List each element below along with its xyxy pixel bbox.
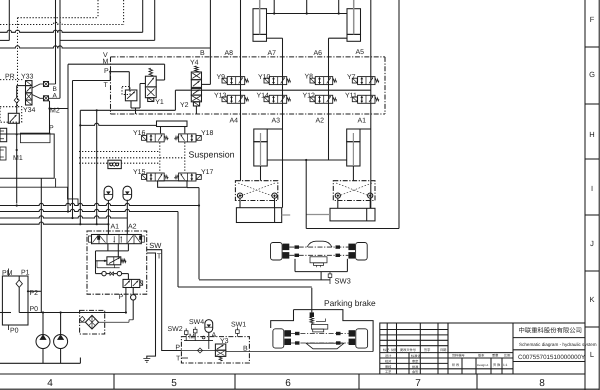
wire dotted horiz y17.7 xyxy=(18,17,99,19)
wire bundle line 3 xyxy=(0,216,127,218)
svg-text:P: P xyxy=(104,68,109,75)
svg-text:A6: A6 xyxy=(313,50,322,57)
solenoid valve Y8 xyxy=(310,77,337,85)
svg-text:审定: 审定 xyxy=(412,359,419,363)
ground symbol T xyxy=(143,359,150,363)
wire bundle line 2 xyxy=(0,209,178,211)
suspension valve block right xyxy=(333,181,375,201)
svg-text:T: T xyxy=(157,252,162,261)
svg-text:更改文件号: 更改文件号 xyxy=(400,348,416,352)
travel valve boundary xyxy=(87,231,147,294)
wire SW line xyxy=(147,250,182,351)
wire A2 feed drop xyxy=(126,218,128,235)
svg-text:A7: A7 xyxy=(267,50,276,57)
axle rear differential xyxy=(306,343,344,349)
svg-text:T: T xyxy=(176,356,181,363)
wire horiz y32.3 xyxy=(0,30,143,32)
wire drops from top edge xyxy=(273,0,275,14)
solenoid valve Y9 xyxy=(222,77,249,85)
svg-text:SW4: SW4 xyxy=(189,319,204,326)
svg-text:I: I xyxy=(591,184,593,193)
reducing valve (pilot supply) xyxy=(125,90,136,101)
svg-text:A: A xyxy=(212,332,217,339)
wire bundle line 4 xyxy=(0,222,108,224)
wire T line xyxy=(147,253,156,358)
cylinder right (outrigger) xyxy=(347,9,361,35)
axle rear wheel left xyxy=(273,329,284,348)
wire bundle line 1 xyxy=(0,203,199,205)
svg-text:Y18: Y18 xyxy=(201,130,214,137)
node P (brake) xyxy=(125,288,127,295)
check diamond (Y3) xyxy=(198,348,203,353)
wire vertical x60 (to A) xyxy=(59,0,61,98)
accumulator 3 xyxy=(205,320,213,333)
wire manifold drops xyxy=(160,127,162,134)
svg-text:审核: 审核 xyxy=(385,365,392,369)
svg-text:A: A xyxy=(53,93,58,100)
svg-text:Y4: Y4 xyxy=(190,60,199,67)
wire dotted vertical x98 xyxy=(97,0,99,18)
solenoid valve Y12 xyxy=(310,95,337,103)
axle front differential xyxy=(307,241,332,247)
svg-text:Y1: Y1 xyxy=(155,99,164,106)
svg-text:A4: A4 xyxy=(229,118,238,125)
Y3 block boundary xyxy=(181,337,249,363)
solenoid valve Y7 xyxy=(352,77,379,85)
svg-text:F: F xyxy=(590,15,595,24)
svg-text:P: P xyxy=(49,125,54,132)
wire vertical x142.7 xyxy=(142,0,144,32)
wire cylinder head line xyxy=(267,13,348,15)
svg-text:A1: A1 xyxy=(357,118,366,125)
wire front axle drain xyxy=(294,259,296,272)
svg-text:Y2: Y2 xyxy=(180,102,189,109)
wire manifold out right xyxy=(187,187,199,189)
parking brake enclosure xyxy=(294,310,374,352)
title block xyxy=(380,323,585,374)
svg-text:A3: A3 xyxy=(271,118,280,125)
svg-text:Design A: Design A xyxy=(477,363,488,367)
node P2 xyxy=(27,290,29,292)
switch SW3 xyxy=(328,274,332,278)
svg-text:Y10: Y10 xyxy=(258,74,271,81)
svg-text:A2: A2 xyxy=(128,223,137,230)
svg-text:A8: A8 xyxy=(224,50,233,57)
svg-text:J: J xyxy=(590,239,594,248)
wire brake P down xyxy=(125,295,127,313)
svg-text:校对: 校对 xyxy=(385,359,392,363)
drawing border right column xyxy=(584,0,586,390)
boundary staircase xyxy=(56,178,78,205)
parking brake actuator xyxy=(310,312,314,317)
svg-text:资料编号: 资料编号 xyxy=(452,354,465,358)
steering unit box xyxy=(0,134,54,178)
wire brake feed xyxy=(311,288,313,313)
wire steering internals xyxy=(40,178,42,312)
svg-text:SW2: SW2 xyxy=(168,326,183,333)
wire suspension connector xyxy=(267,159,347,161)
svg-text:P1: P1 xyxy=(21,270,30,277)
suspension cylinder left xyxy=(254,129,267,142)
svg-text:5: 5 xyxy=(171,378,177,389)
travel control valve xyxy=(92,235,142,244)
svg-text:SW1: SW1 xyxy=(231,322,246,329)
wire from x210 into Y4 xyxy=(209,0,211,84)
node O (brake) xyxy=(132,288,134,295)
shuttle box on pressure line xyxy=(108,160,121,168)
svg-text:P0: P0 xyxy=(10,328,19,335)
wire pump pressure line xyxy=(0,312,11,314)
switch SW2 xyxy=(184,331,188,335)
wire port line A5-A1 xyxy=(370,0,372,129)
valve Y2 xyxy=(191,88,201,95)
cylinder left (outrigger) xyxy=(253,9,267,35)
suspension top manifold xyxy=(157,121,188,127)
svg-text:B: B xyxy=(200,50,205,57)
check diamond xyxy=(14,98,19,103)
svg-text:H: H xyxy=(589,130,594,139)
wire Y3 internals xyxy=(184,340,213,342)
svg-text:C00755701510000000Y: C00755701510000000Y xyxy=(518,354,585,361)
pressure compensator xyxy=(96,250,129,252)
wire down line x96.7 xyxy=(96,110,98,224)
svg-text:Schematic diagram - hydraulic: Schematic diagram - hydraulic system xyxy=(519,342,597,347)
wire port line A6-A2 xyxy=(328,38,330,160)
svg-text:Y9: Y9 xyxy=(217,74,226,81)
switch SW4 xyxy=(193,329,197,333)
axle front wheel right xyxy=(356,243,368,261)
svg-text:Parking brake: Parking brake xyxy=(324,298,376,308)
wire dotted horiz y24.5 xyxy=(0,22,124,24)
reducing valve left xyxy=(8,113,19,123)
wire dash-dot V line xyxy=(111,56,386,58)
steering valve section xyxy=(20,133,50,143)
svg-text:M1: M1 xyxy=(13,155,23,162)
axle rear brake right xyxy=(349,330,356,336)
svg-text:日期: 日期 xyxy=(440,348,446,352)
filter box xyxy=(80,310,105,334)
svg-text:Y14: Y14 xyxy=(257,93,270,100)
wire supply corner to bundle xyxy=(174,90,176,110)
wire port line A8-A4 xyxy=(240,0,242,181)
wire Y2 bottom xyxy=(195,106,197,114)
pump 2 xyxy=(54,335,68,349)
brake pilot valve xyxy=(123,279,140,287)
wire vertical x9.3 xyxy=(8,0,10,40)
svg-text:中联重科股份有限公司: 中联重科股份有限公司 xyxy=(519,327,582,335)
wire valve feed stubs xyxy=(107,244,109,251)
wire B supply to axle xyxy=(249,351,373,353)
small valve at left edge xyxy=(0,128,7,141)
svg-text:版本: 版本 xyxy=(478,354,485,358)
suspension valve block left xyxy=(235,181,277,201)
wire U horiz y40.4 xyxy=(60,39,155,41)
axle rear wheel right xyxy=(356,329,368,348)
svg-text:P: P xyxy=(119,294,124,301)
pump control box xyxy=(2,276,28,325)
svg-text:P: P xyxy=(175,345,180,352)
wire dotted vertical x123.6 xyxy=(123,0,125,25)
wire M line xyxy=(68,63,165,65)
svg-text:T: T xyxy=(104,82,109,89)
suspension cylinder right xyxy=(347,129,360,142)
accumulator 1 xyxy=(104,186,113,200)
svg-text:Y11: Y11 xyxy=(345,93,357,100)
valve group boundary box xyxy=(384,57,386,114)
axle rear brake left xyxy=(284,330,291,336)
svg-text:P0: P0 xyxy=(30,306,39,313)
svg-text:处数: 处数 xyxy=(391,348,398,352)
shuttle check pair B/A xyxy=(44,82,49,87)
suspension accumulator cylinder right xyxy=(330,208,375,221)
wire M2 down line x68 xyxy=(67,64,69,211)
svg-text:A5: A5 xyxy=(355,49,364,56)
svg-text:8: 8 xyxy=(539,378,545,389)
axle front brake left xyxy=(283,244,290,251)
svg-text:批准: 批准 xyxy=(412,365,419,369)
wire SW3 feed drop x199 xyxy=(198,188,200,280)
wire port line A7-A3 xyxy=(282,38,284,129)
wire dotted vertical x17.5 xyxy=(17,18,19,108)
switch SW1 xyxy=(236,330,240,334)
svg-text:Y16: Y16 xyxy=(133,130,146,137)
wire supply bus y90.2 xyxy=(175,89,370,91)
drawing border bottom ruler xyxy=(0,373,585,375)
wire supply down x80.3 xyxy=(79,110,81,224)
solenoid valve Y11 xyxy=(352,95,379,103)
steering internal element xyxy=(0,147,6,160)
wire Y1 left xyxy=(140,83,145,85)
pilot dotted lines xyxy=(79,151,160,153)
pump 1 xyxy=(36,335,50,349)
svg-text:重量: 重量 xyxy=(492,354,499,358)
svg-text:Y17: Y17 xyxy=(201,169,214,176)
svg-text:Y8: Y8 xyxy=(305,74,314,81)
wire horiz y48 xyxy=(0,46,210,48)
svg-text:G: G xyxy=(589,70,595,79)
node M1 xyxy=(16,123,18,203)
svg-text:4: 4 xyxy=(47,378,53,389)
check/orifice row xyxy=(96,273,102,275)
wire A1 feed drop xyxy=(107,224,109,234)
svg-text:比例: 比例 xyxy=(504,354,510,358)
wire right outer vertical x399 xyxy=(398,0,400,229)
wire dash-dot left boundary xyxy=(110,57,112,114)
svg-text:Y7: Y7 xyxy=(347,74,356,81)
svg-text:K: K xyxy=(589,295,594,304)
svg-text:L: L xyxy=(590,350,594,359)
axle front wheel left xyxy=(271,243,283,261)
valve Y1 xyxy=(149,68,153,76)
svg-text:标准化: 标准化 xyxy=(411,354,421,358)
suspension accumulator cylinder left xyxy=(236,208,281,223)
svg-text:SW3: SW3 xyxy=(335,277,351,286)
solenoid valve Y14 xyxy=(264,95,291,103)
wire P-feed down line x72.5 xyxy=(72,81,74,219)
svg-text:Suspension: Suspension xyxy=(189,150,235,160)
wire vertical x55.5 (to B) xyxy=(55,0,57,84)
axle rear shafts xyxy=(291,333,349,335)
svg-text:A1: A1 xyxy=(111,223,120,230)
solenoid valve Y10 xyxy=(264,77,291,85)
svg-text:A2: A2 xyxy=(315,118,324,125)
svg-text:SW: SW xyxy=(149,241,162,250)
svg-text:标记: 标记 xyxy=(383,348,390,352)
svg-text:6: 6 xyxy=(285,378,291,389)
accumulator 2 xyxy=(123,186,132,200)
wire manifold left xyxy=(17,85,26,87)
svg-text:会签: 会签 xyxy=(412,370,419,374)
svg-text:Y33: Y33 xyxy=(21,74,34,81)
svg-text:M: M xyxy=(189,334,195,341)
svg-text:1:1: 1:1 xyxy=(503,363,508,367)
svg-text:7: 7 xyxy=(415,378,421,389)
svg-text:阶 段: 阶 段 xyxy=(452,363,460,367)
wire suction line xyxy=(0,362,80,364)
svg-text:Y12: Y12 xyxy=(303,93,316,100)
axle front shafts xyxy=(289,246,348,248)
wire vertical x154.7 xyxy=(154,0,156,40)
solenoid valve Y13 xyxy=(222,95,249,103)
wire parking feed drop x178 xyxy=(177,212,179,288)
svg-text:签字: 签字 xyxy=(424,348,430,352)
svg-text:设计: 设计 xyxy=(385,354,392,358)
wire P feed xyxy=(73,80,111,82)
axle front brake right xyxy=(348,244,355,251)
svg-text:Y13: Y13 xyxy=(214,93,227,100)
suspension bottom manifold xyxy=(158,181,187,188)
svg-text:Y34: Y34 xyxy=(23,107,36,114)
svg-text:工艺: 工艺 xyxy=(385,370,391,374)
svg-text:页 数: 页 数 xyxy=(493,363,501,367)
